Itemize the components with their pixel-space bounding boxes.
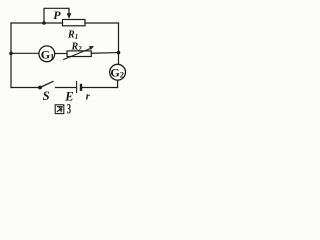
wire: left vertical <box>10 23 12 88</box>
rheostat R2 arrow <box>63 49 90 60</box>
svg-text:P: P <box>53 8 61 22</box>
wire: switch to battery <box>56 87 77 89</box>
switch S lever <box>40 81 54 87</box>
wire: bottom-left horizontal <box>11 87 40 89</box>
node C (right junction dot) <box>117 51 121 55</box>
svg-text:S: S <box>43 89 50 103</box>
battery E long plate <box>76 81 78 93</box>
wire: R2 to right node <box>91 52 118 55</box>
switch S pivot dot <box>38 86 42 90</box>
potentiometer R1 body <box>63 20 86 26</box>
caption 图3 <box>55 105 64 114</box>
wire: right vertical lower <box>117 80 119 88</box>
galvanometer G2 <box>110 64 126 80</box>
node A (junction dot on top wire) <box>42 21 46 25</box>
wire: right vertical upper <box>118 23 120 65</box>
wire: slider arm of R1 <box>44 8 69 23</box>
slider arrowhead of R1 <box>67 13 72 19</box>
wire: top-right horizontal <box>85 22 119 24</box>
wire: bottom-right horizontal <box>82 87 118 89</box>
rheostat R2 body <box>67 51 91 57</box>
battery E short plate <box>80 84 82 91</box>
wire: top-left horizontal <box>11 22 63 24</box>
background <box>0 0 128 119</box>
wire: middle-left (node to G1) <box>11 52 39 54</box>
galvanometer G1 <box>39 46 55 62</box>
svg-text:3: 3 <box>67 102 71 118</box>
node B (left junction dot) <box>9 52 13 56</box>
wire: G1 to R2 <box>55 53 67 55</box>
